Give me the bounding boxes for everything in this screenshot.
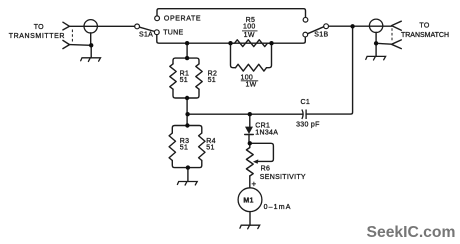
svg-text:TRANSMITTER: TRANSMITTER — [9, 33, 65, 40]
svg-text:S1A: S1A — [139, 32, 153, 39]
svg-text:100: 100 — [243, 23, 256, 30]
svg-text:+: + — [252, 180, 257, 189]
svg-text:0–1mA: 0–1mA — [264, 204, 292, 211]
svg-text:1W: 1W — [244, 32, 255, 39]
svg-text:TO: TO — [34, 24, 44, 31]
svg-text:1N34A: 1N34A — [255, 130, 278, 137]
svg-text:OPERATE: OPERATE — [164, 16, 201, 23]
svg-text:100: 100 — [241, 74, 254, 81]
svg-text:C1: C1 — [301, 99, 311, 106]
svg-text:S1B: S1B — [314, 32, 328, 39]
svg-text:51: 51 — [180, 144, 188, 151]
svg-text:TRANSMATCH: TRANSMATCH — [401, 32, 449, 39]
svg-text:TUNE: TUNE — [163, 30, 183, 37]
svg-text:M1: M1 — [243, 198, 253, 205]
svg-text:R6: R6 — [261, 165, 271, 172]
svg-text:SENSITIVITY: SENSITIVITY — [260, 174, 306, 181]
svg-text:51: 51 — [180, 77, 188, 84]
svg-text:SeekIC.com: SeekIC.com — [367, 224, 456, 241]
svg-text:TO: TO — [419, 23, 429, 30]
svg-text:330 pF: 330 pF — [296, 122, 320, 129]
svg-text:51: 51 — [206, 144, 214, 151]
svg-text:1W: 1W — [245, 81, 256, 88]
svg-text:51: 51 — [208, 77, 216, 84]
